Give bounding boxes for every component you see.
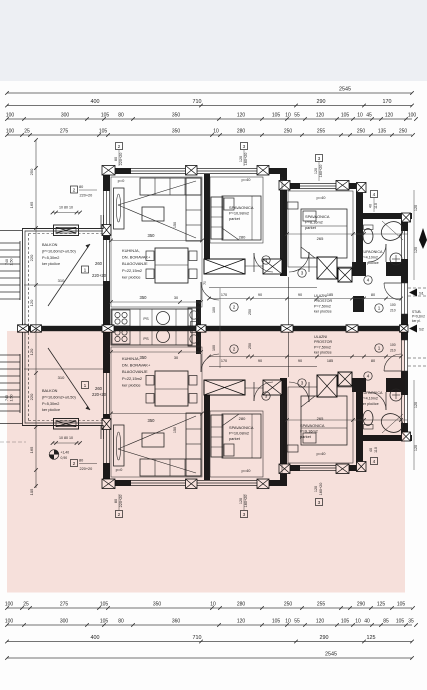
svg-text:105: 105 (397, 602, 406, 608)
svg-text:2545: 2545 (325, 652, 337, 658)
svg-text:120: 120 (237, 619, 246, 625)
svg-text:120: 120 (314, 168, 318, 174)
svg-text:3: 3 (243, 144, 246, 150)
svg-text:30: 30 (174, 296, 178, 300)
svg-text:SPAVAONICA: SPAVAONICA (305, 214, 330, 219)
svg-text:55: 55 (294, 619, 300, 625)
svg-text:2: 2 (233, 305, 236, 310)
svg-text:120: 120 (316, 619, 325, 625)
svg-text:SPAVAONICA: SPAVAONICA (229, 205, 254, 210)
svg-text:260: 260 (95, 261, 103, 266)
svg-text:80: 80 (114, 157, 118, 161)
svg-text:P=10,98m2: P=10,98m2 (229, 211, 249, 216)
svg-text:S2: S2 (419, 327, 425, 332)
svg-text:250: 250 (248, 309, 252, 315)
svg-text:120: 120 (414, 402, 418, 408)
svg-text:80: 80 (79, 185, 83, 189)
svg-text:KUPAONICA: KUPAONICA (361, 250, 383, 254)
svg-text:350: 350 (140, 295, 148, 300)
svg-text:250: 250 (357, 129, 366, 135)
svg-text:DN. BORAVAK+: DN. BORAVAK+ (122, 255, 151, 260)
svg-text:220: 220 (29, 254, 34, 261)
svg-text:105: 105 (341, 113, 350, 119)
svg-text:135: 135 (378, 129, 387, 135)
svg-text:p=40: p=40 (316, 195, 326, 200)
svg-text:70: 70 (203, 281, 207, 285)
svg-text:275: 275 (60, 602, 69, 608)
svg-text:4: 4 (373, 192, 376, 198)
svg-text:BLAGOVANJE: BLAGOVANJE (122, 261, 148, 266)
svg-text:280: 280 (237, 602, 246, 608)
svg-text:P=7,50m2: P=7,50m2 (314, 304, 331, 308)
svg-text:220+20: 220+20 (92, 273, 107, 278)
svg-text:120: 120 (316, 113, 325, 119)
svg-text:360: 360 (172, 619, 181, 625)
svg-text:165: 165 (29, 201, 34, 208)
svg-text:10: 10 (355, 619, 361, 625)
svg-text:120: 120 (414, 205, 418, 211)
svg-text:280: 280 (239, 235, 246, 240)
svg-text:350: 350 (172, 129, 181, 135)
svg-text:1,50: 1,50 (10, 259, 14, 266)
svg-text:120: 120 (385, 113, 394, 119)
svg-text:255: 255 (317, 602, 326, 608)
svg-text:105: 105 (100, 602, 109, 608)
svg-text:400: 400 (91, 99, 100, 105)
svg-text:ker pločice: ker pločice (314, 310, 332, 314)
svg-text:250: 250 (399, 129, 408, 135)
svg-text:ker pl.: ker pl. (412, 319, 421, 323)
svg-text:100: 100 (6, 113, 15, 119)
svg-text:ker pločice: ker pločice (42, 262, 60, 266)
svg-text:85: 85 (383, 619, 389, 625)
svg-text:P=8,16m2: P=8,16m2 (305, 220, 323, 225)
svg-text:P=9,2m2: P=9,2m2 (412, 315, 425, 319)
svg-text:45: 45 (366, 113, 372, 119)
svg-text:40: 40 (369, 204, 373, 208)
svg-text:105: 105 (100, 619, 109, 625)
svg-text:3: 3 (265, 258, 268, 263)
svg-text:180+20: 180+20 (244, 153, 248, 166)
svg-text:290: 290 (317, 99, 326, 105)
svg-text:125: 125 (367, 635, 376, 641)
svg-text:250: 250 (284, 129, 293, 135)
svg-text:P=5,30m2: P=5,30m2 (42, 256, 59, 260)
svg-text:210: 210 (390, 309, 396, 313)
svg-text:40: 40 (364, 619, 370, 625)
svg-text:ker pločice: ker pločice (361, 261, 379, 265)
svg-text:100: 100 (408, 113, 417, 119)
svg-text:3: 3 (318, 156, 321, 162)
svg-text:350: 350 (172, 113, 181, 119)
svg-text:2: 2 (73, 187, 76, 193)
svg-text:120: 120 (29, 299, 34, 306)
svg-text:25: 25 (23, 602, 29, 608)
svg-text:110: 110 (374, 203, 378, 209)
svg-text:220+20: 220+20 (80, 194, 93, 198)
svg-text:1: 1 (378, 306, 381, 311)
svg-text:120: 120 (239, 156, 243, 162)
svg-text:10: 10 (357, 113, 363, 119)
svg-text:185: 185 (327, 293, 333, 297)
svg-text:25: 25 (24, 129, 30, 135)
svg-text:105: 105 (272, 619, 281, 625)
svg-text:90: 90 (258, 293, 262, 297)
svg-text:(P=10,60m2+u0,50): (P=10,60m2+u0,50) (42, 249, 77, 253)
svg-text:35: 35 (408, 619, 414, 625)
svg-text:ULAZNI: ULAZNI (314, 294, 327, 298)
svg-text:P=4,10m2: P=4,10m2 (361, 255, 378, 259)
svg-text:55: 55 (294, 113, 300, 119)
svg-text:90: 90 (298, 293, 302, 297)
svg-text:150: 150 (173, 222, 177, 228)
svg-text:265: 265 (317, 236, 324, 241)
svg-text:710: 710 (193, 635, 202, 641)
svg-text:400: 400 (91, 635, 100, 641)
svg-text:300: 300 (60, 619, 69, 625)
svg-text:350: 350 (148, 233, 156, 238)
svg-text:170: 170 (221, 293, 227, 297)
svg-text:100: 100 (212, 307, 216, 313)
svg-text:4: 4 (367, 278, 370, 283)
svg-text:220+20: 220+20 (119, 153, 123, 166)
svg-text:parket: parket (305, 225, 317, 230)
svg-text:3: 3 (301, 271, 304, 276)
svg-text:290: 290 (357, 602, 366, 608)
svg-text:80: 80 (118, 619, 124, 625)
svg-text:255: 255 (317, 129, 326, 135)
svg-text:100: 100 (6, 129, 15, 135)
svg-text:105: 105 (341, 619, 350, 625)
svg-text:120: 120 (414, 445, 418, 451)
svg-text:290: 290 (320, 635, 329, 641)
svg-text:105: 105 (396, 619, 405, 625)
svg-text:180+20: 180+20 (319, 165, 323, 178)
svg-text:p=40: p=40 (241, 177, 251, 182)
svg-text:300: 300 (61, 113, 70, 119)
svg-text:KUHINJA,: KUHINJA, (122, 248, 140, 253)
svg-text:2545: 2545 (339, 87, 351, 93)
svg-text:120: 120 (414, 247, 418, 253)
svg-text:275: 275 (60, 129, 69, 135)
svg-text:ker pločice: ker pločice (122, 274, 141, 279)
svg-text:310: 310 (58, 278, 65, 283)
svg-text:80: 80 (371, 293, 375, 297)
svg-text:100: 100 (5, 602, 14, 608)
svg-text:250: 250 (29, 168, 34, 175)
svg-text:80: 80 (118, 113, 124, 119)
svg-text:280: 280 (237, 129, 246, 135)
svg-text:120: 120 (237, 113, 246, 119)
svg-text:100: 100 (5, 619, 14, 625)
svg-text:125: 125 (377, 602, 386, 608)
svg-text:PROSTOR: PROSTOR (314, 299, 333, 303)
svg-text:350: 350 (153, 602, 162, 608)
svg-text:parket: parket (229, 216, 241, 221)
svg-text:740: 740 (5, 259, 9, 265)
svg-text:p=0: p=0 (118, 178, 126, 183)
svg-text:710: 710 (193, 99, 202, 105)
svg-text:PS: PS (143, 316, 149, 321)
svg-text:P=22,15m2: P=22,15m2 (122, 268, 142, 273)
svg-text:105: 105 (272, 113, 281, 119)
svg-text:10: 10 (213, 129, 219, 135)
svg-text:100: 100 (390, 303, 396, 307)
svg-text:BALKON: BALKON (42, 243, 58, 247)
svg-text:250: 250 (284, 602, 293, 608)
svg-text:170: 170 (383, 99, 392, 105)
svg-text:S1: S1 (419, 291, 425, 296)
svg-text:STUB.: STUB. (412, 310, 422, 314)
svg-text:10 80 10: 10 80 10 (59, 206, 73, 210)
svg-text:2: 2 (118, 144, 121, 150)
svg-text:1: 1 (84, 267, 87, 273)
